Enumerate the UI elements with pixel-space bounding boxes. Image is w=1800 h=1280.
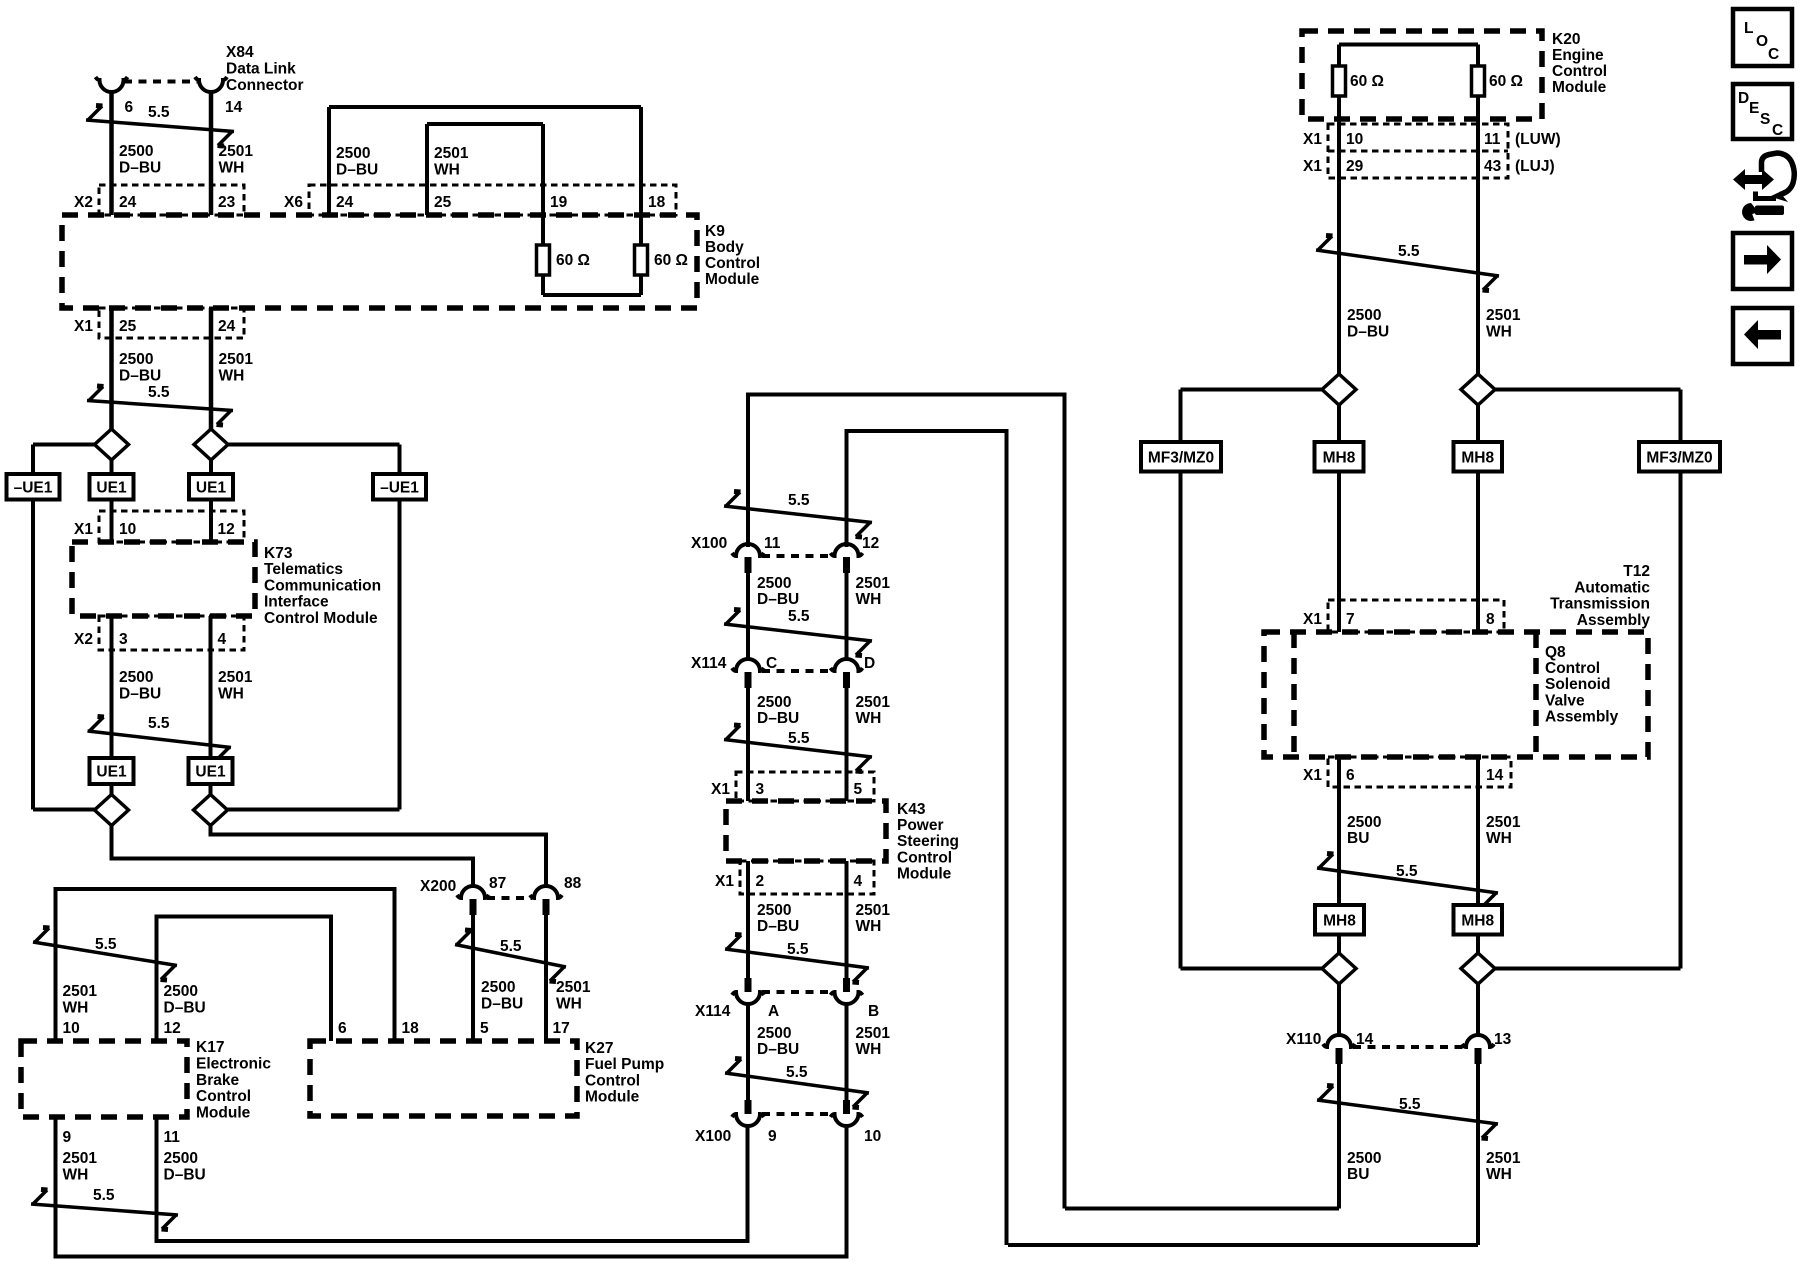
splice node S6 (2501) [1461,374,1495,405]
svg-text:WH: WH [219,160,245,177]
wire down to -UE1 (right) [398,445,402,475]
svg-text:K43: K43 [897,801,926,818]
svg-text:WH: WH [218,686,244,703]
connector X100 terminal 11 [732,544,764,556]
svg-text:WH: WH [856,591,882,608]
wire 2500 D-BU X114-C to K43 X1-3 [746,688,750,801]
svg-text:D–BU: D–BU [481,996,523,1013]
svg-text:25: 25 [434,194,452,211]
connector X200 terminal 88 [530,886,562,898]
wire S1 to UE1 [110,460,114,474]
svg-text:X1: X1 [1303,611,1322,628]
wire K9 internal bus 2501 [427,122,543,126]
connector X200 terminal 87 [457,886,489,898]
connector X114 terminal C [732,659,764,671]
svg-text:25: 25 [119,318,137,335]
wire splice S7 left arm [1181,967,1323,971]
svg-text:2500: 2500 [336,145,370,162]
svg-text:14: 14 [1486,767,1504,784]
svg-text:UE1: UE1 [96,764,127,781]
svg-text:2500: 2500 [757,1025,791,1042]
svg-text:X1: X1 [74,521,93,538]
svg-text:6: 6 [125,99,134,116]
svg-text:2501: 2501 [1486,1150,1521,1167]
wire splice S3 to X200-87 [112,826,474,887]
option code MH8 (2500 lower) [1315,905,1364,935]
connector X84 cavity 14 (cup) [195,77,227,92]
splice node S2 (2501) [194,429,228,460]
svg-text:12: 12 [862,535,879,552]
wire K9 internal top bus 2500 [329,105,641,109]
connector X100 dashed body [762,554,833,558]
svg-text:BU: BU [1347,1166,1369,1183]
svg-text:Control: Control [1545,660,1600,677]
svg-text:X6: X6 [284,194,303,211]
svg-text:2500: 2500 [757,575,791,592]
wire 2501 WH X200-88 to K27-17 [544,915,548,1041]
connector X114 dashed body [762,669,833,673]
svg-text:K27: K27 [585,1040,613,1057]
svg-text:5: 5 [854,781,863,798]
resistor 60 ohm (K9 right) [635,245,648,275]
svg-text:WH: WH [63,1167,89,1184]
svg-text:5.5: 5.5 [788,608,810,625]
svg-text:5.5: 5.5 [788,492,810,509]
svg-text:X200: X200 [420,878,456,895]
wire 2500 D-BU X84-6 to K9 X2-24 [109,92,114,215]
svg-text:2500: 2500 [757,902,791,919]
svg-text:Module: Module [897,865,952,882]
wire S2 to UE1 [209,460,213,474]
svg-text:WH: WH [856,710,882,727]
svg-text:60 Ω: 60 Ω [654,252,688,269]
svg-text:X1: X1 [715,873,734,890]
svg-text:X84: X84 [226,44,254,61]
svg-text:11: 11 [1484,131,1501,148]
wire 2500 D-BU K9 X1-25 down [109,308,114,430]
svg-text:(LUW): (LUW) [1515,131,1561,148]
connector X84 dashed body [124,80,199,84]
svg-text:Brake: Brake [196,1072,239,1089]
connector X114 terminal A [745,978,752,992]
wire splice S2 right arm [228,443,400,447]
twisted-pair symbol 5.5 [725,1073,869,1093]
svg-text:WH: WH [856,918,882,935]
svg-text:2501: 2501 [556,979,591,996]
svg-text:3: 3 [756,781,765,798]
svg-text:5.5: 5.5 [500,938,522,955]
svg-text:5.5: 5.5 [1399,1096,1421,1113]
resistor 60 ohm (K20 right) [1472,66,1485,96]
svg-text:X1: X1 [1303,131,1322,148]
splice node S3 (2500) [95,795,129,826]
svg-text:3: 3 [119,631,128,648]
svg-text:B: B [868,1003,879,1020]
svg-text:5.5: 5.5 [788,730,810,747]
svg-text:D–BU: D–BU [757,918,799,935]
wire splice S6 right arm [1494,388,1681,392]
svg-text:5.5: 5.5 [1398,243,1420,260]
svg-text:2501: 2501 [434,145,469,162]
svg-text:Q8: Q8 [1545,644,1566,661]
wire K9 internal bottom bus [543,293,641,297]
svg-text:6: 6 [1346,767,1355,784]
svg-text:2501: 2501 [63,1150,98,1167]
nav icon back (left arrow) box [1733,308,1792,364]
svg-text:11: 11 [164,1129,181,1146]
option code -UE1 (right) [373,474,426,500]
wire S8 to X110-13 [1476,984,1480,1034]
svg-text:X2: X2 [74,194,93,211]
twisted-pair symbol 5.5 (X84 drop) [86,120,234,132]
wire 2501 WH K43 X1-4 to X114-B [845,861,849,978]
svg-text:Connector: Connector [226,77,304,94]
svg-text:2500: 2500 [119,669,153,686]
svg-text:2501: 2501 [1486,307,1521,324]
connector X114 terminal B [843,978,850,992]
svg-text:88: 88 [564,875,582,892]
svg-text:D–BU: D–BU [757,591,799,608]
svg-text:BU: BU [1347,830,1369,847]
wire 2500 D-BU X100-11 to X114-C [746,573,750,659]
svg-text:X1: X1 [74,318,93,335]
module Q8 Control Solenoid Valve Assembly box edge [1533,632,1539,757]
svg-text:2500: 2500 [164,1150,198,1167]
wire MF3/MZ0 right down to splice S8 [1679,472,1683,969]
wire 2501 bus X100-12 up and over to right bottom [847,431,1007,1245]
twisted-pair symbol 5.5 [88,731,232,748]
splice node S5 (2500) [1322,374,1356,405]
connector X100 terminal 10 [843,1100,850,1114]
svg-text:Valve: Valve [1545,692,1585,709]
svg-text:12: 12 [218,521,235,538]
svg-text:UE1: UE1 [196,479,227,496]
wire K9 internal from X6-24 up [327,107,331,215]
T12 connector X1 pin row (6/14) [1328,757,1511,787]
svg-text:9: 9 [63,1129,72,1146]
svg-text:MH8: MH8 [1461,912,1494,929]
svg-text:18: 18 [402,1020,420,1037]
option code -UE1 (left) [7,474,60,500]
module K27 Fuel Pump Control Module box [310,1041,577,1116]
option code MH8 (2500 upper) [1315,442,1364,472]
svg-text:X100: X100 [691,535,727,552]
svg-text:D–BU: D–BU [757,1041,799,1058]
wire splice S8 right arm [1494,967,1681,971]
svg-text:Power: Power [897,817,944,834]
svg-text:Control: Control [1552,63,1607,80]
splice node S1 (2500) [95,429,129,460]
option code MF3/MZ0 (left) [1141,442,1221,472]
wire K9 internal from X6-25 up [425,124,429,215]
svg-text:K20: K20 [1552,31,1580,48]
wire bottom bus 2501 to middle column [1008,1243,1478,1247]
wire R2 to bottom bus [639,275,643,295]
module K73 Telematics Communication Interface Control Module box [72,542,255,616]
svg-text:K17: K17 [196,1039,224,1056]
wire splice S1 left arm [33,443,95,447]
svg-text:13: 13 [1494,1031,1512,1048]
wire to R3 [1337,45,1341,67]
svg-text:Control: Control [585,1072,640,1089]
svg-text:UE1: UE1 [195,764,226,781]
svg-text:24: 24 [218,318,236,335]
twisted-pair symbol 5.5 [1317,1100,1498,1124]
svg-text:WH: WH [1486,1166,1512,1183]
svg-text:X2: X2 [74,631,93,648]
svg-text:X114: X114 [695,1003,731,1020]
module K20 Engine Control Module box [1302,31,1542,119]
module T12 inner dashed edge left [1291,632,1297,757]
option code UE1 (2501 lower) [189,758,233,784]
wire S5 to MH8 [1337,405,1341,442]
twisted-pair symbol 5.5 [724,740,872,758]
splice node S4 (2501) [194,795,228,826]
svg-text:2501: 2501 [63,983,98,1000]
wire S6 to MH8 [1476,405,1480,442]
nav icon LOC box [1733,9,1792,66]
svg-text:D–BU: D–BU [757,710,799,727]
svg-text:X114: X114 [691,655,727,672]
wire 2501 WH X114-B to X100-10 [845,1004,849,1100]
svg-text:60 Ω: 60 Ω [1489,73,1523,90]
svg-text:MF3/MZ0: MF3/MZ0 [1148,449,1214,466]
svg-text:2: 2 [756,873,765,890]
svg-text:5.5: 5.5 [786,1064,808,1081]
wire 2501 WH X84-14 to K9 X2-23 [209,92,214,215]
option code MH8 (2501 lower) [1454,905,1503,935]
wire MH8 to splice S7 [1337,935,1341,954]
svg-text:WH: WH [1486,830,1512,847]
wire bottom bus 2500 to middle column [1065,1207,1339,1211]
wire 2500 bus X100-11 up and over to right bottom [748,395,1065,1209]
K9 connector X2 pin row box [99,185,244,215]
svg-text:60 Ω: 60 Ω [1350,73,1384,90]
wire UE1 to splice S3 [110,784,114,795]
svg-text:6: 6 [338,1020,347,1037]
svg-text:C: C [1772,122,1783,139]
svg-text:2500: 2500 [1347,1150,1381,1167]
wire to MF3/MZ0 right [1679,390,1683,443]
svg-text:Electronic: Electronic [196,1055,271,1072]
svg-text:Steering: Steering [897,833,959,850]
svg-text:Interface: Interface [264,594,329,611]
svg-text:10: 10 [864,1128,881,1145]
wire 2501 WH X100-12 to X114-D [845,573,849,659]
svg-text:10: 10 [1346,131,1363,148]
wire 2500 D-BU K17-12 loop to K27-6 [157,917,332,1042]
svg-text:X110: X110 [1286,1031,1321,1048]
nav icon jump-to-wiring (arrows and wrench) [1733,169,1774,190]
wire K9 internal down to R1 via X6-19 [541,124,545,245]
K43 connector X1 pin row box (2/4) [740,861,874,894]
module K43 Power Steering Control Module box [726,801,886,861]
svg-text:X1: X1 [1303,767,1322,784]
wire 2501 WH K20 X1-11 down to splice [1476,96,1480,375]
svg-text:17: 17 [553,1020,570,1037]
svg-text:24: 24 [119,194,137,211]
wire MH8 to T12 X1-8 [1476,472,1480,633]
svg-text:2501: 2501 [1486,814,1521,831]
wire -UE1 right down to splice S4 [398,500,402,810]
svg-text:5.5: 5.5 [787,941,809,958]
wire 2500 D-BU X200-87 to K27-5 [471,915,475,1041]
wire MH8 to splice S8 [1476,935,1480,954]
svg-text:2500: 2500 [119,143,153,160]
svg-text:–UE1: –UE1 [14,479,53,496]
svg-text:2500: 2500 [164,983,198,1000]
svg-text:C: C [1768,46,1779,63]
svg-text:O: O [1756,33,1768,50]
svg-text:Transmission: Transmission [1550,596,1650,613]
svg-text:2500: 2500 [1347,814,1381,831]
svg-text:2500: 2500 [757,694,791,711]
svg-text:29: 29 [1346,158,1364,175]
svg-text:2501: 2501 [219,351,254,368]
wire 2501 WH T12 X1-14 down [1476,757,1480,905]
svg-text:2501: 2501 [218,669,253,686]
wire to R4 [1476,45,1480,67]
twisted-pair symbol 5.5 [455,945,566,968]
nav icon DESC box [1733,84,1792,139]
svg-text:UE1: UE1 [96,479,127,496]
svg-text:WH: WH [63,1000,89,1017]
svg-text:10: 10 [119,521,136,538]
wire UE1 to K73 X1-10 [110,500,114,543]
wire 2500 D-BU K73 X2-3 down [110,616,114,758]
svg-text:Control: Control [196,1088,251,1105]
svg-text:Engine: Engine [1552,47,1604,64]
svg-text:WH: WH [219,368,245,385]
svg-text:12: 12 [164,1020,181,1037]
K73 connector X2 pin row box [99,616,244,650]
splice node S8 (2501) [1461,953,1495,984]
svg-text:E: E [1749,100,1759,117]
twisted-pair symbol 5.5 [1317,868,1498,893]
connector X100 terminal 12 [831,544,863,556]
svg-text:D: D [864,655,875,672]
svg-text:D–BU: D–BU [119,368,161,385]
svg-text:2501: 2501 [856,902,891,919]
wire 2501 WH K73 X2-4 down [209,616,213,758]
wire 2501 WH K17-10 loop to K27-18 [56,889,395,1041]
svg-text:MH8: MH8 [1323,912,1356,929]
connector X200 dashed body [487,896,532,900]
svg-text:K9: K9 [705,223,725,240]
svg-text:2501: 2501 [856,575,891,592]
nav icon next (right arrow) box [1733,233,1792,289]
svg-text:D–BU: D–BU [336,162,378,179]
resistor 60 ohm (K20 left) [1333,66,1346,96]
svg-text:MF3/MZ0: MF3/MZ0 [1646,449,1712,466]
svg-text:60 Ω: 60 Ω [556,252,590,269]
wire UE1 to splice S4 [209,784,213,795]
K43 connector X1 pin row box (3/5) [736,772,874,801]
svg-text:X1: X1 [711,781,730,798]
K20 connector X1 pin rows box [1328,124,1508,178]
svg-text:Module: Module [1552,79,1607,96]
svg-text:5.5: 5.5 [95,936,117,953]
svg-text:WH: WH [1486,324,1512,341]
T12 connector X1 pin row (7/8) [1328,600,1504,632]
svg-text:D–BU: D–BU [119,686,161,703]
twisted-pair symbol 5.5 [725,949,869,968]
svg-text:11: 11 [764,535,781,552]
svg-text:9: 9 [768,1128,777,1145]
svg-text:D–BU: D–BU [164,1000,206,1017]
svg-text:Assembly: Assembly [1545,708,1619,725]
svg-text:A: A [768,1003,779,1020]
svg-text:87: 87 [489,875,506,892]
svg-text:MH8: MH8 [1323,449,1356,466]
svg-text:X100: X100 [695,1128,731,1145]
wire 2500 D-BU X114-A to X100-9 [746,1004,750,1100]
wire to MF3/MZ0 left [1179,390,1183,443]
svg-text:T12: T12 [1623,563,1650,580]
svg-text:MH8: MH8 [1461,449,1494,466]
wire splice S4 right arm [228,808,400,812]
svg-text:Telematics: Telematics [264,561,343,578]
wire 2500 BU T12 X1-6 down [1337,757,1341,905]
svg-text:Solenoid: Solenoid [1545,676,1610,693]
module T12 Automatic Transmission Assembly box [1264,632,1648,757]
svg-text:2501: 2501 [856,694,891,711]
option code UE1 (2500) [90,474,134,500]
svg-text:(LUJ): (LUJ) [1515,158,1555,175]
svg-text:Control Module: Control Module [264,610,378,627]
svg-text:2500: 2500 [481,979,515,996]
twisted-pair symbol 5.5 [724,624,872,641]
svg-text:Module: Module [196,1105,251,1122]
connector X110 dashed body [1353,1045,1463,1049]
wire R1 to bottom bus [541,275,545,295]
svg-text:Automatic: Automatic [1574,579,1650,596]
wire 2501 WH X110-13 down [1476,1064,1480,1245]
option code MF3/MZ0 (right) [1639,442,1720,472]
wire splice S4 to X200-88 [211,826,547,887]
option code UE1 (2501) [189,474,233,500]
svg-text:5: 5 [480,1020,489,1037]
K20 pin rows divider [1328,150,1508,153]
svg-text:5.5: 5.5 [148,384,170,401]
wire 2501 WH X114-D to K43 X1-5 [845,688,849,801]
svg-text:2500: 2500 [119,351,153,368]
wire 2500 BU X110-14 down [1337,1064,1341,1209]
twisted-pair symbol 5.5 [31,1204,178,1215]
wire S7 to X110-14 [1337,984,1341,1034]
svg-text:5.5: 5.5 [1396,863,1418,880]
svg-text:2501: 2501 [219,143,254,160]
module K9 Body Control Module box [62,215,697,308]
svg-text:Fuel Pump: Fuel Pump [585,1056,664,1073]
svg-text:4: 4 [218,631,227,648]
svg-text:Module: Module [705,271,760,288]
svg-text:L: L [1744,20,1753,37]
svg-text:D–BU: D–BU [119,160,161,177]
wire 2501 WH K17-9 bottom bus to X100-10 [56,1117,847,1257]
svg-text:24: 24 [336,194,354,211]
svg-text:Module: Module [585,1089,640,1106]
svg-text:WH: WH [856,1041,882,1058]
wire K9 internal down to R2 via X6-18 [639,107,643,245]
svg-text:10: 10 [63,1020,80,1037]
wire UE1 to K73 X1-12 [209,500,213,543]
svg-text:Assembly: Assembly [1577,612,1651,629]
svg-text:K73: K73 [264,545,293,562]
connector X114 dashed body [762,990,833,994]
wire splice S5 left arm [1181,388,1323,392]
svg-text:Communication: Communication [264,577,381,594]
